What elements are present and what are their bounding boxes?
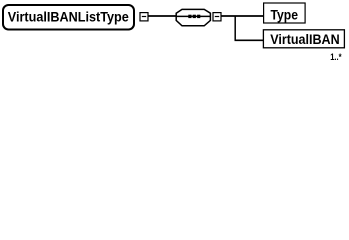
wire: branch to VirtualIBAN box (235, 39, 264, 41)
wire: sequence to Type box (222, 15, 264, 17)
sequence compositor (octagon) (176, 9, 210, 25)
svg-text:VirtualIBAN: VirtualIBAN (270, 32, 340, 47)
wire: branch vertical (234, 16, 236, 40)
svg-text:Type: Type (271, 8, 299, 23)
complexType box VirtualIBANListType (3, 5, 134, 30)
expand button 2 (minus box) (213, 13, 221, 21)
expand button 1 (minus box) (140, 13, 148, 21)
element box Type (264, 3, 306, 23)
element box VirtualIBAN (263, 30, 344, 48)
wire: box to sequence (149, 15, 177, 17)
svg-text:VirtualIBANListType: VirtualIBANListType (8, 9, 129, 24)
svg-text:1..*: 1..* (330, 52, 342, 63)
